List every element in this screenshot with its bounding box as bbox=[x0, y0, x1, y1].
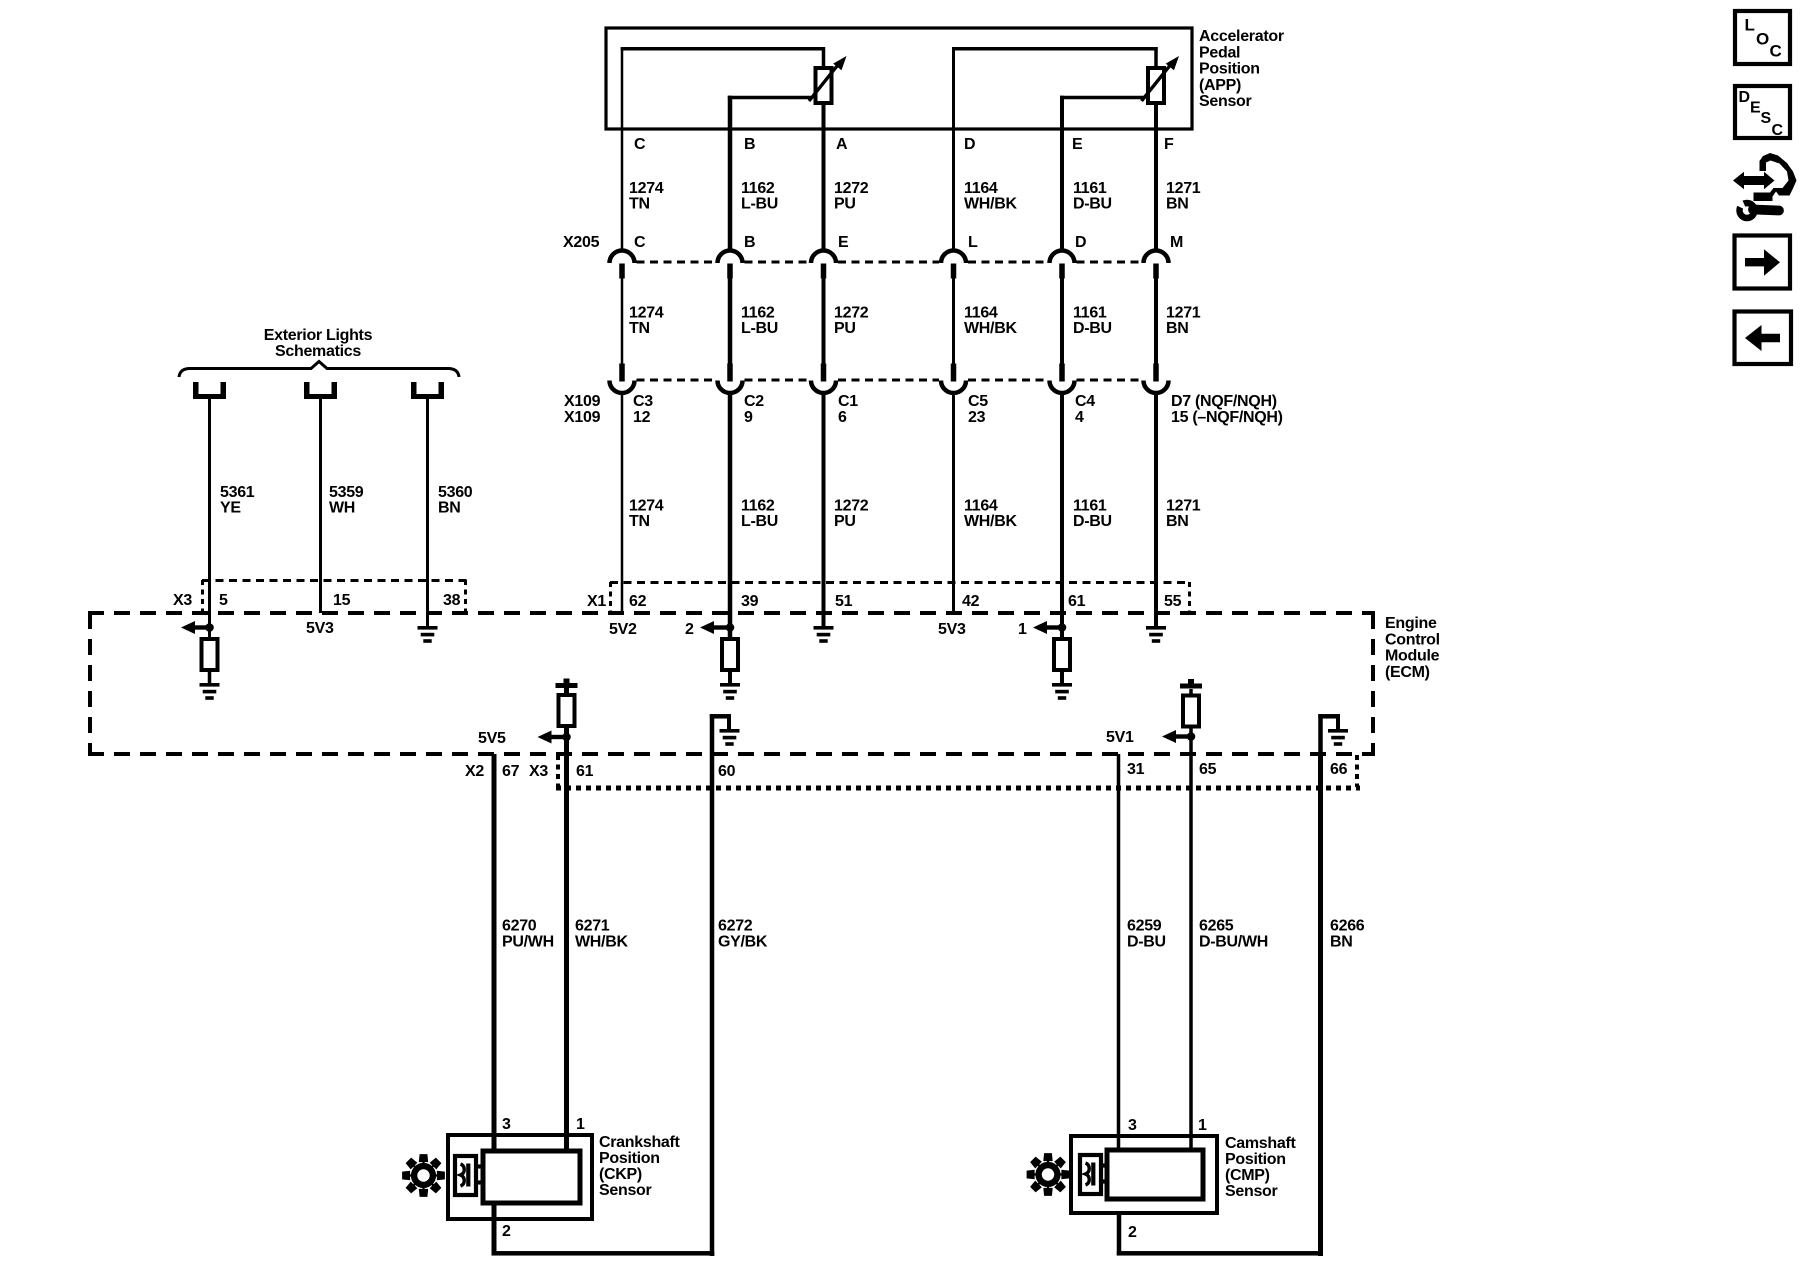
CKP sensor label text bbox=[599, 1134, 681, 1199]
svg-text:D7 (NQF/NQH): D7 (NQF/NQH) bbox=[1171, 393, 1277, 410]
svg-text:9: 9 bbox=[744, 409, 753, 426]
svg-text:6259: 6259 bbox=[1127, 918, 1162, 935]
potentiometer 2 wiper arrow bbox=[1142, 56, 1180, 101]
svg-text:PU/WH: PU/WH bbox=[502, 934, 554, 951]
svg-text:1162: 1162 bbox=[741, 180, 775, 197]
svg-text:6271: 6271 bbox=[575, 918, 610, 935]
connector X205 male pins bbox=[619, 264, 1159, 279]
svg-text:3: 3 bbox=[502, 1116, 511, 1133]
node 5V5 arrow bbox=[478, 730, 571, 747]
CKP pin 2 wire to pin 60 bbox=[492, 1203, 715, 1256]
svg-text:6265: 6265 bbox=[1199, 918, 1234, 935]
svg-text:39: 39 bbox=[741, 593, 759, 610]
svg-text:3: 3 bbox=[1128, 1117, 1137, 1134]
svg-text:6272: 6272 bbox=[718, 918, 753, 935]
svg-text:38: 38 bbox=[443, 592, 461, 609]
svg-text:YE: YE bbox=[220, 500, 241, 517]
connector X109 label bbox=[564, 393, 601, 426]
wire labels row 1 (1274 TN .. 1271 BN) bbox=[629, 180, 1201, 213]
CMP reluctor gear bbox=[1027, 1153, 1070, 1196]
svg-text:60: 60 bbox=[718, 763, 736, 780]
svg-text:65: 65 bbox=[1199, 761, 1217, 778]
CMP sensor label text bbox=[1225, 1135, 1296, 1200]
svg-text:1: 1 bbox=[1198, 1117, 1207, 1134]
svg-text:1: 1 bbox=[576, 1116, 585, 1133]
svg-text:L-BU: L-BU bbox=[741, 513, 778, 530]
wire 6259 D-BU bbox=[1117, 754, 1121, 1151]
ECM label text bbox=[1385, 615, 1440, 681]
svg-text:L-BU: L-BU bbox=[741, 196, 778, 213]
svg-text:5V3: 5V3 bbox=[306, 620, 334, 637]
svg-text:PU: PU bbox=[834, 320, 856, 337]
svg-text:L: L bbox=[1745, 16, 1755, 35]
svg-text:1164: 1164 bbox=[964, 180, 998, 197]
icon LOC box bbox=[1735, 11, 1790, 64]
wire label 5360 BN bbox=[438, 484, 473, 517]
svg-text:Sensor: Sensor bbox=[1199, 93, 1252, 110]
svg-text:BN: BN bbox=[1330, 934, 1353, 951]
svg-text:C2: C2 bbox=[744, 393, 764, 410]
svg-text:5360: 5360 bbox=[438, 484, 473, 501]
icon double arrow wrench bbox=[1732, 153, 1797, 218]
potentiometer 2 top stub bbox=[1154, 50, 1158, 69]
connector X1 dotted box bbox=[610, 582, 1190, 611]
off-page connector bracket 2 bbox=[304, 382, 337, 399]
resistor at pin 5 bbox=[202, 639, 218, 670]
svg-text:5: 5 bbox=[219, 592, 228, 609]
svg-text:31: 31 bbox=[1127, 761, 1145, 778]
svg-text:6: 6 bbox=[838, 409, 847, 426]
svg-text:GY/BK: GY/BK bbox=[718, 934, 768, 951]
CKP sensor inner box bbox=[483, 1151, 580, 1203]
svg-text:C4: C4 bbox=[1075, 393, 1095, 410]
off-page connector bracket 1 bbox=[193, 382, 226, 399]
svg-text:X1: X1 bbox=[587, 593, 606, 610]
svg-text:Module: Module bbox=[1385, 648, 1440, 665]
pull-up resistor 5V1 bbox=[1180, 679, 1202, 727]
svg-text:BN: BN bbox=[1166, 513, 1189, 530]
svg-text:2: 2 bbox=[685, 621, 694, 638]
wire label 6265 D-BU/WH bbox=[1199, 918, 1268, 951]
svg-text:X109: X109 bbox=[564, 393, 601, 410]
svg-text:1272: 1272 bbox=[834, 498, 869, 515]
svg-text:61: 61 bbox=[1068, 593, 1086, 610]
icon DESC box bbox=[1735, 86, 1790, 139]
svg-text:5361: 5361 bbox=[220, 484, 255, 501]
wire 6272 GY/BK bbox=[710, 754, 715, 1256]
connector X109 male pins bbox=[619, 364, 1159, 382]
wire APP pin E vertical + wiper rail bbox=[1060, 96, 1144, 251]
svg-text:15: 15 bbox=[333, 592, 351, 609]
svg-text:1162: 1162 bbox=[741, 498, 775, 515]
svg-text:1161: 1161 bbox=[1073, 305, 1107, 322]
svg-text:E: E bbox=[1750, 100, 1761, 117]
svg-text:4: 4 bbox=[1075, 409, 1084, 426]
icon left arrow box bbox=[1735, 312, 1792, 365]
wires X109 to ECM X1 bbox=[621, 391, 1158, 639]
svg-text:1164: 1164 bbox=[964, 498, 998, 515]
connector X2/X3 dotted box bottom bbox=[556, 755, 1360, 788]
wire label 6272 GY/BK bbox=[718, 918, 768, 951]
svg-text:1271: 1271 bbox=[1166, 305, 1201, 322]
svg-text:TN: TN bbox=[629, 196, 650, 213]
svg-text:23: 23 bbox=[968, 409, 986, 426]
svg-text:(CMP): (CMP) bbox=[1225, 1167, 1270, 1184]
svg-text:WH: WH bbox=[329, 500, 355, 517]
svg-text:X109: X109 bbox=[564, 409, 601, 426]
page ref 1 arrow at pin 61 bbox=[1018, 621, 1066, 638]
svg-text:D-BU: D-BU bbox=[1073, 196, 1112, 213]
svg-text:BN: BN bbox=[1166, 320, 1189, 337]
svg-text:L: L bbox=[968, 234, 978, 251]
svg-text:1161: 1161 bbox=[1073, 498, 1107, 515]
ground below pin 61 resistor bbox=[1052, 683, 1072, 700]
potentiometer 1 body bbox=[816, 68, 832, 103]
connector X109 female cups bbox=[610, 381, 1169, 393]
CMP element stubs bbox=[1101, 1163, 1107, 1183]
svg-text:1272: 1272 bbox=[834, 305, 869, 322]
connector X205 pin letters bbox=[634, 234, 1183, 251]
wire 6266 BN bbox=[1318, 754, 1323, 1256]
svg-text:PU: PU bbox=[834, 513, 856, 530]
svg-text:D-BU: D-BU bbox=[1073, 320, 1112, 337]
svg-text:D: D bbox=[964, 136, 975, 153]
connector X109 pin labels bbox=[633, 393, 1283, 426]
svg-text:E: E bbox=[1072, 136, 1083, 153]
svg-text:(APP): (APP) bbox=[1199, 77, 1241, 94]
svg-text:51: 51 bbox=[835, 593, 853, 610]
CKP sensor outer box bbox=[448, 1135, 592, 1219]
CMP sensing element bbox=[1080, 1155, 1101, 1194]
wire APP pin A from pot 1 bbox=[822, 103, 826, 251]
svg-text:PU: PU bbox=[834, 196, 856, 213]
connector X205 dashed row line bbox=[637, 261, 1142, 264]
CMP pin 2 wire to pin 66 bbox=[1117, 1213, 1323, 1256]
wire 6265 D-BU/WH bbox=[1189, 689, 1193, 1151]
CMP sensor inner box bbox=[1107, 1150, 1203, 1199]
svg-text:D-BU: D-BU bbox=[1073, 513, 1112, 530]
svg-text:Schematics: Schematics bbox=[275, 343, 361, 360]
pull-up resistor 5V5 bbox=[556, 679, 578, 727]
svg-text:L-BU: L-BU bbox=[741, 320, 778, 337]
wire labels row 3 (1274 TN .. 1271 BN) bbox=[629, 498, 1201, 531]
svg-text:67: 67 bbox=[502, 763, 520, 780]
svg-text:1161: 1161 bbox=[1073, 180, 1107, 197]
wire APP pin B vertical + wiper rail bbox=[728, 96, 811, 251]
svg-text:B: B bbox=[744, 136, 755, 153]
svg-text:WH/BK: WH/BK bbox=[964, 320, 1017, 337]
svg-text:1162: 1162 bbox=[741, 305, 775, 322]
CKP reluctor gear bbox=[402, 1154, 445, 1197]
svg-text:Engine: Engine bbox=[1385, 615, 1437, 632]
svg-text:2: 2 bbox=[502, 1223, 511, 1240]
svg-text:Position: Position bbox=[1199, 61, 1260, 78]
wire stub pin 61 resistor to ground bbox=[1060, 670, 1064, 684]
svg-text:5V1: 5V1 bbox=[1106, 729, 1134, 746]
ground at pin 51 bbox=[814, 626, 834, 643]
svg-text:C5: C5 bbox=[968, 393, 988, 410]
wire labels row 2 (1274 TN .. 1271 BN) bbox=[629, 305, 1201, 338]
svg-text:6270: 6270 bbox=[502, 918, 537, 935]
svg-text:D-BU/WH: D-BU/WH bbox=[1199, 934, 1268, 951]
svg-text:C: C bbox=[1772, 122, 1784, 139]
ground hook at pin 66 bbox=[1318, 714, 1348, 754]
svg-text:1272: 1272 bbox=[834, 180, 869, 197]
potentiometer 1 top stub bbox=[822, 50, 826, 69]
svg-text:C1: C1 bbox=[838, 393, 858, 410]
svg-text:(ECM): (ECM) bbox=[1385, 664, 1430, 681]
svg-text:5359: 5359 bbox=[329, 484, 364, 501]
svg-text:Crankshaft: Crankshaft bbox=[599, 1134, 681, 1151]
wire APP pin D vertical + top rail bbox=[952, 47, 1158, 251]
APP sensor label text bbox=[1199, 28, 1284, 110]
svg-text:5V2: 5V2 bbox=[609, 621, 637, 638]
svg-text:BN: BN bbox=[1166, 196, 1189, 213]
svg-text:Accelerator: Accelerator bbox=[1199, 28, 1284, 45]
wires X205 to X109 bbox=[621, 277, 1158, 364]
ground at pin 38 bbox=[418, 626, 438, 643]
svg-text:C: C bbox=[634, 234, 646, 251]
wire APP pin F from pot 2 bbox=[1154, 103, 1158, 251]
ECM dashed box bbox=[88, 613, 1375, 754]
svg-text:WH/BK: WH/BK bbox=[575, 934, 628, 951]
svg-text:Exterior Lights: Exterior Lights bbox=[264, 327, 373, 344]
svg-text:WH/BK: WH/BK bbox=[964, 513, 1017, 530]
svg-text:15 (–NQF/NQH): 15 (–NQF/NQH) bbox=[1171, 409, 1283, 426]
svg-text:D: D bbox=[1739, 89, 1750, 106]
svg-text:X2: X2 bbox=[465, 763, 484, 780]
svg-text:A: A bbox=[836, 136, 848, 153]
CMP sensor outer box bbox=[1071, 1136, 1217, 1213]
svg-text:66: 66 bbox=[1330, 761, 1348, 778]
off-page connector bracket 3 bbox=[411, 382, 444, 399]
svg-text:55: 55 bbox=[1164, 593, 1182, 610]
wire label 6266 BN bbox=[1330, 918, 1365, 951]
svg-text:TN: TN bbox=[629, 320, 650, 337]
svg-text:D-BU: D-BU bbox=[1127, 934, 1166, 951]
potentiometer 2 body bbox=[1148, 68, 1164, 103]
connector X109 dashed row line bbox=[637, 379, 1142, 382]
CKP element stubs bbox=[476, 1164, 483, 1184]
svg-text:F: F bbox=[1164, 136, 1174, 153]
svg-text:2: 2 bbox=[1128, 1224, 1137, 1241]
svg-text:1274: 1274 bbox=[629, 498, 664, 515]
wire APP pin C vertical + top rail bbox=[621, 47, 826, 251]
svg-text:Control: Control bbox=[1385, 631, 1440, 648]
wire 5360 BN bbox=[426, 399, 429, 628]
resistor at pin 39 bbox=[722, 639, 738, 670]
svg-text:M: M bbox=[1170, 234, 1183, 251]
APP sensor U1 box outline bbox=[606, 28, 1192, 129]
svg-text:X3: X3 bbox=[173, 592, 192, 609]
svg-text:TN: TN bbox=[629, 513, 650, 530]
svg-text:42: 42 bbox=[962, 593, 980, 610]
wire 5359 WH bbox=[319, 399, 322, 613]
connector X3 dotted box bbox=[202, 580, 467, 611]
CKP sensing element bbox=[455, 1156, 476, 1195]
connector X1 pin labels bbox=[629, 593, 1182, 610]
ground at pin 55 bbox=[1146, 626, 1166, 643]
svg-text:Camshaft: Camshaft bbox=[1225, 1135, 1296, 1152]
svg-text:Sensor: Sensor bbox=[1225, 1183, 1278, 1200]
svg-text:O: O bbox=[1756, 30, 1769, 49]
APP pin letters C B A D E F bbox=[634, 136, 1174, 153]
svg-text:1274: 1274 bbox=[629, 180, 664, 197]
curly brace bbox=[179, 362, 459, 378]
svg-text:1164: 1164 bbox=[964, 305, 998, 322]
svg-text:1271: 1271 bbox=[1166, 498, 1201, 515]
svg-text:S: S bbox=[1761, 110, 1772, 127]
svg-text:5V5: 5V5 bbox=[478, 730, 506, 747]
svg-text:62: 62 bbox=[629, 593, 647, 610]
svg-text:X3: X3 bbox=[529, 763, 548, 780]
svg-text:Position: Position bbox=[599, 1150, 660, 1167]
wire label 6270 PU/WH bbox=[502, 918, 554, 951]
svg-text:(CKP): (CKP) bbox=[599, 1166, 642, 1183]
svg-text:BN: BN bbox=[438, 500, 461, 517]
svg-text:1271: 1271 bbox=[1166, 180, 1201, 197]
svg-text:1274: 1274 bbox=[629, 305, 664, 322]
ground below pin 5 resistor bbox=[200, 683, 220, 700]
icon right arrow box bbox=[1735, 236, 1791, 289]
svg-text:1: 1 bbox=[1018, 621, 1027, 638]
wire 6270 PU/WH bbox=[492, 754, 497, 1152]
wire 6271 WH/BK bbox=[564, 688, 569, 1152]
svg-text:6266: 6266 bbox=[1330, 918, 1365, 935]
svg-text:C: C bbox=[1770, 42, 1782, 61]
svg-text:Position: Position bbox=[1225, 1151, 1286, 1168]
wire label 6271 WH/BK bbox=[575, 918, 628, 951]
ground below pin 39 resistor bbox=[720, 683, 740, 700]
exterior lights schematics title bbox=[264, 327, 373, 360]
svg-text:WH/BK: WH/BK bbox=[964, 196, 1017, 213]
svg-text:C3: C3 bbox=[633, 393, 653, 410]
svg-text:C: C bbox=[634, 136, 646, 153]
wire stub pin 39 resistor to ground bbox=[728, 670, 732, 684]
page ref 2 arrow at pin 39 bbox=[685, 621, 734, 638]
svg-text:X205: X205 bbox=[563, 234, 600, 251]
wire label 5359 WH bbox=[329, 484, 364, 517]
arrow at pin 5 bbox=[181, 621, 214, 634]
svg-text:12: 12 bbox=[633, 409, 651, 426]
ground hook at pin 60 bbox=[710, 714, 740, 754]
svg-text:Pedal: Pedal bbox=[1199, 44, 1240, 61]
wire 5361 YE bbox=[208, 399, 211, 639]
svg-text:B: B bbox=[744, 234, 755, 251]
svg-text:61: 61 bbox=[576, 763, 594, 780]
connector X205 female arcs bbox=[610, 250, 1169, 263]
wire label 6259 D-BU bbox=[1127, 918, 1166, 951]
svg-text:D: D bbox=[1075, 234, 1086, 251]
wire stub pin 5 resistor to ground bbox=[208, 670, 212, 684]
wire label 5361 YE bbox=[220, 484, 255, 517]
svg-text:E: E bbox=[838, 234, 849, 251]
svg-text:5V3: 5V3 bbox=[938, 621, 966, 638]
node 5V1 arrow bbox=[1106, 729, 1195, 746]
resistor at pin 61 bbox=[1054, 639, 1070, 670]
potentiometer 1 wiper arrow bbox=[809, 56, 847, 101]
svg-text:Sensor: Sensor bbox=[599, 1182, 652, 1199]
